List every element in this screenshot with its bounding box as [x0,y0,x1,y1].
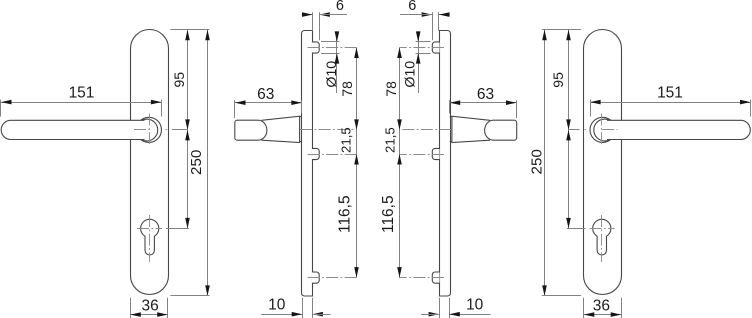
svg-text:95: 95 [171,72,187,88]
svg-text:6: 6 [336,0,344,14]
svg-text:Ø10: Ø10 [324,61,340,88]
svg-text:78: 78 [383,81,399,97]
svg-text:36: 36 [593,298,610,315]
svg-text:116,5: 116,5 [380,195,397,233]
svg-text:10: 10 [466,297,484,314]
svg-text:116,5: 116,5 [336,195,353,233]
svg-text:21,5: 21,5 [338,127,353,153]
svg-text:151: 151 [657,84,683,101]
svg-text:151: 151 [69,84,95,101]
svg-text:36: 36 [141,298,158,315]
svg-text:78: 78 [339,81,355,97]
svg-text:Ø10: Ø10 [403,61,419,88]
svg-text:6: 6 [408,0,416,14]
svg-text:21,5: 21,5 [383,127,398,153]
svg-text:63: 63 [257,86,274,103]
svg-text:250: 250 [188,150,205,175]
svg-text:63: 63 [477,86,494,103]
svg-text:10: 10 [268,297,286,314]
svg-text:95: 95 [550,72,566,88]
svg-text:250: 250 [529,149,546,174]
